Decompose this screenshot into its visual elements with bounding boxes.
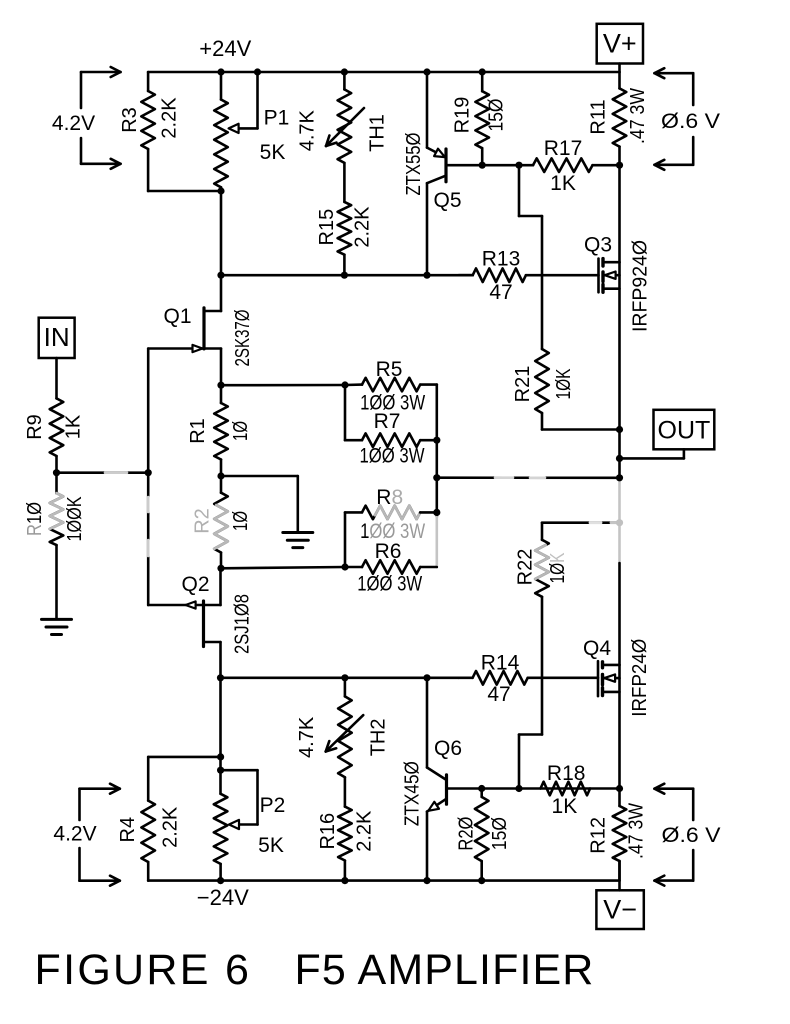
wire V- rail join (618, 861, 621, 881)
node Q1 source (217, 382, 224, 389)
resistor R2 (214, 493, 228, 553)
svg-text:1Ø: 1Ø (230, 511, 252, 531)
svg-text:+24V: +24V (199, 36, 251, 61)
node input (53, 469, 60, 476)
wire R11 bottom lead (618, 147, 621, 166)
svg-text:R9: R9 (24, 414, 46, 440)
transistor Q4 (597, 661, 600, 696)
svg-text:TH2: TH2 (368, 719, 390, 757)
thermistor TH2 (338, 696, 352, 777)
node bank bottom-left (341, 563, 348, 570)
svg-text:R15: R15 (316, 209, 338, 246)
node feedback/input (145, 469, 152, 476)
node OUT (616, 455, 623, 462)
svg-text:1K: 1K (552, 795, 578, 818)
resistor R18 (541, 782, 591, 796)
wire R3 bottom (147, 149, 150, 191)
resistor R17 (533, 158, 593, 172)
svg-text:IRFP924Ø: IRFP924Ø (630, 240, 652, 332)
svg-text:1ØK: 1ØK (547, 552, 569, 584)
wire R19 bottom lead (481, 148, 484, 165)
svg-text:Q5: Q5 (433, 189, 461, 212)
wire P1 bottom lead (220, 187, 223, 191)
svg-text:4.2V: 4.2V (53, 823, 96, 846)
svg-text:1ØØ 3W: 1ØØ 3W (360, 445, 425, 468)
node R7 right (433, 437, 440, 444)
node P2 wiper (217, 767, 224, 774)
svg-text:OUT: OUT (658, 417, 711, 445)
wire main vertical to P2 (219, 678, 222, 794)
wire Q5 base line (446, 164, 519, 167)
potentiometer P2 (214, 794, 228, 864)
svg-text:R8: R8 (376, 486, 403, 509)
transistor Q5 (444, 149, 447, 182)
wire P2 bottom lead (219, 864, 222, 881)
wire R19 top lead (481, 72, 484, 91)
wire Q6 emitter to rail (426, 812, 429, 881)
svg-text:15Ø: 15Ø (486, 99, 508, 132)
wire bank right vertical gray (435, 517, 438, 567)
svg-text:47: 47 (489, 281, 512, 304)
wire R4 top (148, 756, 220, 759)
node TH2 top (341, 674, 348, 681)
ground input (42, 618, 72, 621)
resistor R5 (362, 378, 420, 392)
svg-text:R7: R7 (374, 410, 401, 433)
svg-text:P2: P2 (260, 794, 286, 817)
wire R15 bottom lead (343, 255, 346, 276)
node R16 bottom rail (341, 877, 348, 884)
node +24V rail/P1 (217, 68, 224, 75)
bracket 4.2V bottom (78, 789, 81, 820)
svg-text:2.2K: 2.2K (159, 97, 181, 139)
node R1/R2 mid (217, 472, 224, 479)
wire TH1-R15 join (343, 163, 346, 202)
svg-text:R19: R19 (452, 97, 474, 134)
wire R13 line mid (459, 274, 473, 277)
wire R17-R21 jog (518, 165, 521, 216)
resistor R20 (475, 797, 489, 861)
resistor R12 (613, 806, 627, 861)
svg-text:Q3: Q3 (584, 234, 612, 257)
wire TH2 top lead (344, 678, 347, 697)
svg-text:IRFP24Ø: IRFP24Ø (629, 639, 651, 717)
svg-text:R6: R6 (375, 540, 402, 563)
wire main right vertical Q4 (618, 665, 621, 789)
node R18 right/R12 (616, 785, 623, 792)
svg-text:Q1: Q1 (163, 305, 191, 328)
svg-text:V−: V− (603, 895, 637, 925)
thermistor TH1 (338, 89, 352, 162)
node Q6 collector/R14 (423, 674, 430, 681)
node R22 top gray (616, 519, 623, 526)
resistor R22 (535, 540, 549, 597)
wire bank right vertical (435, 385, 438, 517)
svg-text:1K: 1K (63, 414, 85, 439)
svg-text:R3: R3 (119, 107, 141, 133)
wire R16 bottom lead (344, 861, 347, 881)
resistor R14 (473, 671, 528, 685)
svg-text:R1Ø: R1Ø (24, 502, 46, 536)
svg-text:V+: V+ (603, 29, 637, 59)
svg-text:R22: R22 (515, 549, 537, 586)
wire R21 bottom to OUT rail (541, 413, 544, 430)
node R2 bottom (217, 565, 224, 572)
node R13 left (217, 272, 224, 279)
wire P1 top lead (220, 72, 223, 100)
node P1 wiper (254, 68, 261, 75)
svg-text:1ØK: 1ØK (553, 368, 575, 400)
transistor Q1 (204, 310, 221, 313)
svg-text:2.2K: 2.2K (354, 810, 376, 852)
svg-text:4.7K: 4.7K (297, 109, 319, 151)
V+ terminal (597, 24, 643, 64)
svg-text:4.7K: 4.7K (296, 716, 318, 758)
resistor R4 (141, 801, 155, 862)
svg-text:R18: R18 (547, 762, 586, 785)
svg-text:2.2K: 2.2K (160, 806, 182, 848)
svg-text:15Ø: 15Ø (489, 817, 511, 850)
resistor R19 (475, 91, 489, 148)
node tap out (616, 474, 623, 481)
svg-text:Ø.6 V: Ø.6 V (661, 110, 720, 133)
node R21 out (616, 426, 623, 433)
node Q2 drain (217, 674, 224, 681)
svg-text:2SJ1Ø8: 2SJ1Ø8 (232, 594, 254, 654)
resistor R13 (473, 268, 526, 282)
node R8 right (433, 509, 440, 516)
resistor R1 (214, 403, 228, 460)
svg-text:−24V: −24V (197, 885, 249, 910)
svg-text:IN: IN (44, 322, 70, 352)
node R4 top (217, 753, 224, 760)
svg-text:1Ø: 1Ø (230, 421, 252, 441)
bracket 0.6V bottom (692, 789, 695, 820)
wire feedback gray gaps (147, 497, 150, 512)
resistor R10 (50, 493, 64, 545)
svg-text:ZTX45Ø: ZTX45Ø (402, 761, 424, 826)
svg-text:F5 AMPLIFIER: F5 AMPLIFIER (295, 946, 595, 994)
wire R4 bottom lead (147, 862, 150, 881)
wire R22 top (542, 521, 620, 524)
wire R9-R10 node join (55, 456, 58, 473)
svg-text:Q2: Q2 (181, 573, 209, 596)
node TH1 top (341, 68, 348, 75)
bracket 4.2V top (80, 72, 83, 108)
wire main right vertical Q3-OUT (618, 262, 621, 478)
wire mid ground stem (221, 475, 298, 478)
node R19/Q5 base (479, 162, 486, 169)
resistor R21 (535, 349, 549, 413)
node bank top-left (341, 381, 348, 388)
node R17 left (515, 162, 522, 169)
wire R14 line (221, 676, 428, 679)
wire OUT stub (683, 449, 686, 458)
svg-text:R4: R4 (117, 817, 139, 843)
wire bottom rail -24V (148, 879, 619, 882)
svg-text:R17: R17 (544, 137, 583, 160)
wire TH2-R16 join (344, 777, 347, 806)
svg-text:Ø.6 V: Ø.6 V (662, 824, 721, 847)
wire Q1 gate feedback line (147, 349, 150, 606)
wire Q2 drain (219, 642, 222, 678)
svg-text:2SK37Ø: 2SK37Ø (232, 310, 254, 367)
svg-text:R12: R12 (588, 817, 610, 854)
wire IN box lead (55, 358, 58, 398)
wire R10 to ground (55, 545, 58, 619)
svg-text:R5: R5 (376, 358, 403, 381)
wire R2 leads (220, 476, 223, 493)
OUT terminal (654, 410, 715, 450)
node output tap (433, 474, 440, 481)
wire R8-R6 bank left (344, 512, 347, 567)
svg-text:1ØØ 3W: 1ØØ 3W (357, 572, 422, 595)
bracket 0.6V top (692, 73, 695, 105)
node Q5 emitter rail (423, 68, 430, 75)
wire output tap gray gaps (495, 476, 513, 479)
wire R5-R7 bank left (344, 385, 347, 440)
svg-text:5K: 5K (260, 141, 286, 164)
wire input line gray gap (105, 471, 127, 474)
svg-text:1ØØK: 1ØØK (64, 496, 86, 542)
resistor R16 (338, 807, 352, 861)
wire P2 wiper loop (221, 769, 258, 772)
svg-text:R2: R2 (192, 508, 214, 534)
svg-text:FIGURE 6: FIGURE 6 (35, 946, 252, 994)
svg-text:R21: R21 (512, 366, 534, 403)
node R3/P1 bottom (217, 187, 224, 194)
resistor R8 (362, 506, 420, 520)
node Q6 base/R20 (478, 785, 485, 792)
resistor R7 (362, 433, 420, 447)
wire R20 leads (480, 789, 483, 797)
transistor Q2 (204, 641, 221, 644)
svg-text:.47 3W: .47 3W (625, 803, 647, 859)
wire TH1 top lead (343, 72, 346, 89)
svg-text:2.2K: 2.2K (352, 206, 374, 248)
wire R1 leads (220, 385, 223, 403)
resistor R9 (50, 398, 64, 456)
svg-text:4.2V: 4.2V (52, 112, 95, 135)
wire R22 top gray dashes (590, 521, 601, 524)
wire Q5 collector (426, 183, 429, 275)
wire Q6 base line (447, 787, 620, 790)
svg-text:1K: 1K (550, 172, 576, 195)
wire V+ drop (618, 64, 621, 73)
wire output tap line (437, 476, 620, 479)
svg-text:47: 47 (487, 683, 510, 706)
transistor Q6 (445, 775, 448, 804)
svg-text:R13: R13 (482, 248, 521, 271)
resistor R3 (141, 91, 155, 149)
IN terminal (39, 318, 75, 358)
node Q5 collector (423, 272, 430, 279)
svg-text:R16: R16 (317, 813, 339, 850)
svg-text:R11: R11 (588, 99, 610, 134)
wire main vertical Q1 drain (220, 191, 223, 311)
node R18 left (515, 785, 522, 792)
node Q6 emitter rail (423, 877, 430, 884)
wire R17 leads (519, 164, 533, 167)
svg-text:R2Ø: R2Ø (456, 817, 478, 851)
svg-text:R14: R14 (481, 651, 520, 674)
wire R13 line left (221, 274, 427, 277)
wire line to R5 bank (221, 384, 345, 387)
wire top rail +24V (148, 71, 619, 74)
svg-text:ZTX55Ø: ZTX55Ø (403, 133, 425, 196)
resistor R11 (613, 88, 627, 146)
node R19 top (479, 68, 486, 75)
wire R11 top lead (618, 72, 621, 88)
svg-text:P1: P1 (264, 107, 290, 130)
wire R3 top lead (147, 72, 150, 91)
wire Q6 collector (426, 678, 429, 768)
svg-text:Q4: Q4 (583, 637, 611, 660)
resistor R15 (338, 202, 352, 255)
V- terminal (596, 890, 643, 929)
wire line to R6 bank (221, 567, 345, 568)
svg-text:R1: R1 (187, 418, 209, 444)
wire Q5 emitter (426, 72, 429, 148)
wire input line (57, 471, 149, 474)
svg-text:Q6: Q6 (434, 737, 462, 760)
wire Q1 source to R1 (220, 349, 223, 386)
wire main right vertical lower (618, 563, 621, 665)
node R11/R17 (616, 162, 623, 169)
resistor R6 (362, 560, 420, 574)
svg-text:5K: 5K (258, 834, 284, 857)
ground mid (283, 531, 313, 534)
wire R12 leads (618, 789, 621, 807)
wire main right vertical upper (618, 165, 621, 262)
wire R22 bottom to Q6 base (541, 597, 544, 735)
wire Q2 source (219, 568, 222, 605)
transistor Q3 (597, 259, 600, 293)
svg-text:.47 3W: .47 3W (627, 88, 649, 144)
node R15 bottom (341, 272, 348, 279)
wire main right vertical gray (618, 478, 621, 563)
potentiometer P1 (214, 100, 228, 188)
svg-text:TH1: TH1 (367, 114, 389, 152)
node R20 bottom rail (478, 877, 485, 884)
node P2 bottom rail (217, 877, 224, 884)
